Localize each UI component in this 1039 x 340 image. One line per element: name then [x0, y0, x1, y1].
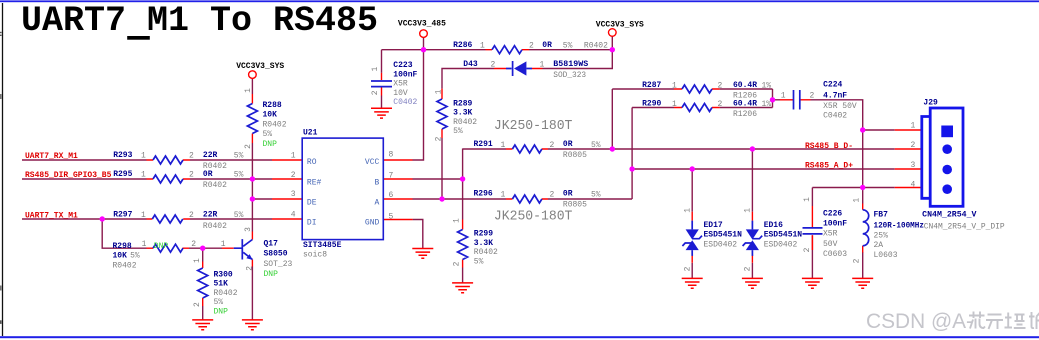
wire R290 row	[632, 107, 772, 109]
wire RS485_B_D- net	[548, 89, 895, 212]
wire termination C224 row	[773, 89, 863, 188]
svg-text:B5819WS: B5819WS	[553, 60, 588, 69]
svg-text:1: 1	[501, 190, 506, 199]
svg-text:A: A	[374, 199, 379, 208]
svg-text:R297: R297	[113, 210, 132, 219]
wire U21 GND pin to ground	[413, 220, 423, 249]
svg-text:SOT_23: SOT_23	[264, 260, 293, 269]
svg-text:C226: C226	[823, 209, 842, 218]
svg-text:C223: C223	[393, 61, 412, 70]
svg-text:soic8: soic8	[303, 250, 327, 259]
power symbol VCC3V3_SYS (left)	[236, 62, 284, 79]
wire net DE row	[252, 198, 272, 200]
svg-text:3: 3	[911, 161, 916, 170]
resistor R296	[474, 190, 601, 210]
connector J29	[911, 99, 1005, 232]
node J29 pin1 junction	[860, 127, 865, 132]
svg-text:2: 2	[744, 266, 753, 271]
svg-text:5%: 5%	[234, 152, 244, 161]
wire net RS485_DIR row	[22, 178, 272, 180]
wire J29 pin4 row and C226 branch	[812, 188, 894, 279]
svg-text:10K: 10K	[113, 252, 128, 261]
svg-text:60.4R: 60.4R	[733, 100, 757, 109]
svg-text:VCC3V3_SYS: VCC3V3_SYS	[236, 62, 284, 71]
svg-text:R0402: R0402	[474, 248, 498, 257]
svg-text:2: 2	[684, 266, 693, 271]
svg-text:DNP: DNP	[264, 270, 279, 279]
svg-text:0R: 0R	[563, 140, 573, 149]
capacitor C224	[781, 81, 857, 121]
svg-text:DE: DE	[307, 199, 317, 208]
svg-text:FB7: FB7	[874, 211, 889, 220]
svg-text:R290: R290	[642, 100, 661, 109]
svg-text:4: 4	[911, 181, 916, 190]
svg-text:6: 6	[389, 191, 394, 200]
ground (ED17)	[682, 278, 703, 288]
resistor R288 (vertical)	[244, 88, 287, 149]
svg-text:DNP: DNP	[214, 307, 229, 316]
svg-text:1: 1	[781, 92, 786, 101]
svg-text:2: 2	[718, 100, 723, 109]
wire R288 pullup vertical to Q17 collector	[251, 78, 253, 231]
TVS diode ED17	[682, 208, 742, 272]
resistor R295	[113, 170, 243, 190]
resistor R297	[113, 210, 243, 230]
svg-text:D43: D43	[463, 60, 478, 69]
resistor R289 (vertical)	[435, 89, 478, 141]
wire VCC3V3_SYS net top	[529, 36, 612, 68]
svg-text:C224: C224	[823, 81, 842, 90]
svg-text:22R: 22R	[203, 151, 218, 160]
wire ED17 lower	[691, 263, 693, 279]
svg-text:25%: 25%	[874, 231, 889, 240]
svg-text:2: 2	[291, 171, 296, 180]
svg-text:120R-100MHz: 120R-100MHz	[874, 222, 925, 231]
svg-text:R300: R300	[214, 271, 233, 280]
wire R289 bottom to A row	[441, 138, 443, 199]
svg-text:R293: R293	[113, 151, 132, 160]
svg-text:ESD5451N: ESD5451N	[764, 231, 803, 240]
svg-text:Q17: Q17	[264, 239, 279, 248]
svg-text:10V: 10V	[393, 89, 408, 98]
svg-text:2: 2	[718, 82, 723, 91]
svg-text:5%: 5%	[234, 171, 244, 180]
svg-text:2: 2	[189, 171, 194, 180]
wire B pin row	[413, 178, 463, 180]
svg-text:2: 2	[550, 141, 555, 150]
svg-text:1: 1	[803, 197, 812, 202]
ground (R300)	[192, 320, 213, 330]
svg-text:R0402: R0402	[113, 261, 137, 270]
svg-text:VCC3V3_SYS: VCC3V3_SYS	[596, 21, 644, 30]
svg-text:R0805: R0805	[563, 201, 587, 210]
svg-text:3: 3	[291, 190, 296, 199]
svg-text:RO: RO	[307, 158, 317, 167]
svg-text:1: 1	[853, 198, 862, 203]
svg-text:RE#: RE#	[307, 179, 322, 188]
svg-text:8: 8	[389, 151, 394, 160]
svg-text:1: 1	[141, 171, 146, 180]
wire VCC3V3_485 net top	[382, 37, 486, 160]
capacitor C226	[803, 197, 848, 259]
svg-text:VCC: VCC	[365, 158, 380, 167]
transistor Q17	[234, 227, 293, 279]
svg-text:R286: R286	[453, 41, 472, 50]
svg-text:1: 1	[142, 240, 147, 249]
svg-text:2: 2	[810, 92, 815, 101]
svg-text:5%: 5%	[563, 41, 573, 50]
svg-text:1: 1	[744, 208, 753, 213]
svg-text:5%: 5%	[263, 130, 273, 139]
svg-text:R289: R289	[453, 100, 472, 109]
resistor R298	[113, 240, 226, 270]
power symbol VCC3V3_485	[398, 20, 446, 38]
node B D- / R287 junction	[610, 146, 615, 151]
node B/R291/R299 junction	[460, 176, 465, 181]
node Q17 base junction	[200, 246, 205, 251]
svg-text:1: 1	[371, 67, 380, 72]
svg-text:UART7_TX_M1: UART7_TX_M1	[25, 212, 78, 221]
svg-text:3.3K: 3.3K	[453, 109, 472, 118]
wire A row U21 to R296	[413, 198, 633, 200]
svg-text:2: 2	[191, 240, 196, 249]
node C224/R287/R290 junction	[770, 97, 775, 102]
wire R291 leg and R299 leg	[463, 149, 506, 283]
svg-text:R291: R291	[474, 140, 493, 149]
resistor R291	[474, 140, 601, 160]
svg-text:22R: 22R	[203, 210, 218, 219]
svg-text:1: 1	[435, 89, 444, 94]
svg-text:5: 5	[389, 212, 394, 221]
svg-text:2: 2	[435, 136, 444, 141]
svg-text:1: 1	[540, 61, 545, 70]
capacitor C223	[371, 61, 418, 107]
svg-text:SOD_323: SOD_323	[553, 71, 586, 80]
TVS diode ED16	[743, 208, 803, 272]
svg-text:3: 3	[244, 227, 253, 232]
wire FB7 branch	[862, 188, 864, 279]
svg-text:JK250-180T: JK250-180T	[494, 210, 573, 225]
svg-text:C0402: C0402	[393, 98, 417, 107]
svg-text:R0805: R0805	[563, 151, 587, 160]
svg-text:CSDN @A-: CSDN @A-	[866, 310, 973, 333]
ground (FB7)	[852, 278, 873, 288]
svg-text:1: 1	[221, 240, 226, 249]
svg-text:DI: DI	[307, 218, 317, 227]
resistor R286	[453, 41, 608, 54]
node A D+ / ED17 junction	[690, 166, 695, 171]
node VCC3V3_SYS junction	[610, 47, 615, 52]
svg-text:2: 2	[803, 247, 812, 252]
svg-text:R295: R295	[113, 170, 132, 179]
svg-text:5%: 5%	[130, 252, 140, 261]
svg-text:2: 2	[193, 302, 202, 307]
svg-text:5%: 5%	[234, 211, 244, 220]
svg-text:1: 1	[684, 208, 693, 213]
svg-text:S8050: S8050	[264, 250, 288, 259]
node TX/R298 junction	[100, 216, 105, 221]
svg-text:R0402: R0402	[214, 289, 238, 298]
svg-text:CN4M_2R54_V: CN4M_2R54_V	[922, 211, 977, 220]
svg-text:1: 1	[672, 82, 677, 91]
svg-text:3.3K: 3.3K	[474, 239, 493, 248]
svg-text:C0603: C0603	[823, 250, 847, 259]
resistor R300 (vertical)	[193, 258, 238, 316]
svg-text:50V: 50V	[823, 240, 838, 249]
ground (C226)	[802, 278, 823, 288]
node A/R289 junction	[439, 196, 444, 201]
svg-text:UART7_RX_M1: UART7_RX_M1	[25, 152, 78, 161]
resistor R293	[113, 151, 243, 171]
svg-text:2: 2	[491, 61, 496, 70]
svg-text:X5R: X5R	[393, 80, 408, 89]
diode D43 B5819WS	[463, 60, 588, 80]
svg-text:1: 1	[141, 211, 146, 220]
svg-text:5%: 5%	[453, 127, 463, 136]
svg-text:5%: 5%	[474, 258, 484, 267]
svg-text:R0402: R0402	[453, 118, 477, 127]
power symbol VCC3V3_SYS (right)	[596, 21, 644, 37]
svg-text:R296: R296	[474, 190, 493, 199]
svg-text:R0402: R0402	[263, 120, 287, 129]
svg-text:2: 2	[853, 258, 862, 263]
svg-text:RS485_B_D-: RS485_B_D-	[805, 142, 853, 151]
svg-text:1: 1	[911, 122, 916, 131]
svg-text:0R: 0R	[203, 170, 213, 179]
svg-text:2: 2	[371, 90, 380, 95]
resistor R299 (vertical)	[453, 218, 499, 266]
svg-text:1: 1	[244, 88, 253, 93]
svg-text:RS485_A_D+: RS485_A_D+	[805, 162, 853, 171]
pin stubs red	[147, 50, 921, 306]
ground (ED16)	[742, 278, 763, 288]
node VCC3V3_485 junction	[421, 47, 426, 52]
wire R300 branch	[202, 248, 204, 320]
svg-text:2: 2	[189, 211, 194, 220]
svg-text:UART7 M1 To RS485: UART7 M1 To RS485	[21, 1, 378, 41]
svg-text:1%: 1%	[762, 82, 772, 91]
svg-text:51K: 51K	[214, 280, 229, 289]
ground (R299)	[452, 283, 473, 293]
svg-text:U21: U21	[303, 129, 318, 138]
ferrite bead FB7	[853, 198, 925, 264]
svg-text:2: 2	[246, 266, 255, 271]
svg-text:R288: R288	[263, 101, 282, 110]
svg-text:RS485_DIR_GPIO3_B5: RS485_DIR_GPIO3_B5	[25, 171, 112, 180]
svg-text:60.4R: 60.4R	[733, 81, 757, 90]
wire C223 lower	[381, 96, 383, 109]
svg-text:1: 1	[291, 152, 296, 161]
wire D43 anode to R289	[442, 69, 494, 89]
svg-text:1: 1	[672, 100, 677, 109]
svg-text:5%: 5%	[591, 190, 601, 199]
node J29 pin4 junction	[860, 185, 865, 190]
wire Q17 emitter to ground	[251, 267, 253, 320]
svg-text:X5R: X5R	[823, 230, 838, 239]
svg-text:R287: R287	[642, 81, 661, 90]
svg-text:4.7nF: 4.7nF	[823, 91, 847, 100]
svg-text:L0603: L0603	[874, 251, 898, 260]
wire R298 branch	[102, 219, 222, 248]
svg-text:ED17: ED17	[704, 221, 723, 230]
svg-text:2: 2	[244, 144, 253, 149]
wire J29 pin1 row	[863, 129, 895, 131]
svg-text:ESD0402: ESD0402	[764, 240, 798, 249]
svg-text:ED16: ED16	[764, 221, 783, 230]
svg-text:DNP: DNP	[263, 140, 278, 149]
svg-text:SIT3485E: SIT3485E	[303, 241, 342, 250]
wire R287 row	[612, 88, 772, 90]
svg-text:1: 1	[501, 141, 506, 150]
wire net UART7_TX row	[22, 218, 272, 220]
node DE junction	[250, 196, 255, 201]
svg-text:C0402: C0402	[823, 111, 847, 120]
svg-text:2: 2	[911, 141, 916, 150]
svg-text:5%: 5%	[214, 298, 224, 307]
svg-text:JK250-180T: JK250-180T	[494, 119, 573, 134]
wire C226 FB7 mid maroon	[862, 252, 864, 255]
svg-text:0R: 0R	[563, 190, 573, 199]
node RE# junction	[250, 176, 255, 181]
svg-text:R1206: R1206	[733, 110, 757, 119]
svg-text:2A: 2A	[874, 241, 884, 250]
svg-text:10K: 10K	[263, 111, 278, 120]
svg-text:R0402: R0402	[584, 41, 608, 50]
ground (C223)	[371, 108, 392, 118]
svg-text:1: 1	[480, 41, 485, 50]
svg-text:R299: R299	[474, 230, 493, 239]
svg-text:B: B	[374, 179, 379, 188]
svg-text:2: 2	[189, 152, 194, 161]
svg-text:0R: 0R	[542, 41, 552, 50]
svg-text:7: 7	[389, 171, 394, 180]
ground (Q17)	[242, 320, 263, 330]
svg-text:4: 4	[291, 210, 296, 219]
op-amp U21 SIT3485E box	[291, 129, 394, 260]
svg-text:ESD0402: ESD0402	[704, 240, 738, 249]
svg-text:CN4M_2R54_V_P_DIP: CN4M_2R54_V_P_DIP	[924, 223, 1005, 232]
ground (U21 GND)	[412, 249, 433, 259]
resistor R287	[642, 81, 771, 100]
svg-text:1: 1	[193, 258, 202, 263]
node A D+ / R290 junction	[629, 166, 634, 171]
svg-text:DNP: DNP	[154, 242, 169, 251]
resistor R290	[642, 100, 771, 119]
svg-text:ESD5451N: ESD5451N	[704, 231, 743, 240]
svg-text:VCC3V3_485: VCC3V3_485	[398, 20, 446, 29]
svg-text:R298: R298	[113, 242, 132, 251]
svg-text:X5R 50V: X5R 50V	[823, 102, 857, 111]
wire RS485_A_D+ net	[632, 108, 895, 212]
svg-text:R0402: R0402	[203, 222, 227, 231]
wire net UART7_RX_M1 row	[22, 159, 272, 161]
svg-text:R0402: R0402	[203, 181, 227, 190]
svg-text:100nF: 100nF	[393, 70, 417, 79]
svg-text:2: 2	[529, 41, 534, 50]
svg-text:100nF: 100nF	[823, 219, 847, 228]
svg-text:2: 2	[550, 190, 555, 199]
svg-text:1%: 1%	[762, 100, 772, 109]
svg-text:2: 2	[453, 261, 462, 266]
svg-text:1: 1	[141, 152, 146, 161]
wire ED16 lower	[751, 263, 753, 279]
svg-text:1: 1	[453, 218, 462, 223]
svg-text:GND: GND	[365, 218, 380, 227]
svg-text:J29: J29	[923, 99, 938, 108]
node B D- / ED16 junction	[750, 146, 755, 151]
svg-text:5%: 5%	[591, 141, 601, 150]
